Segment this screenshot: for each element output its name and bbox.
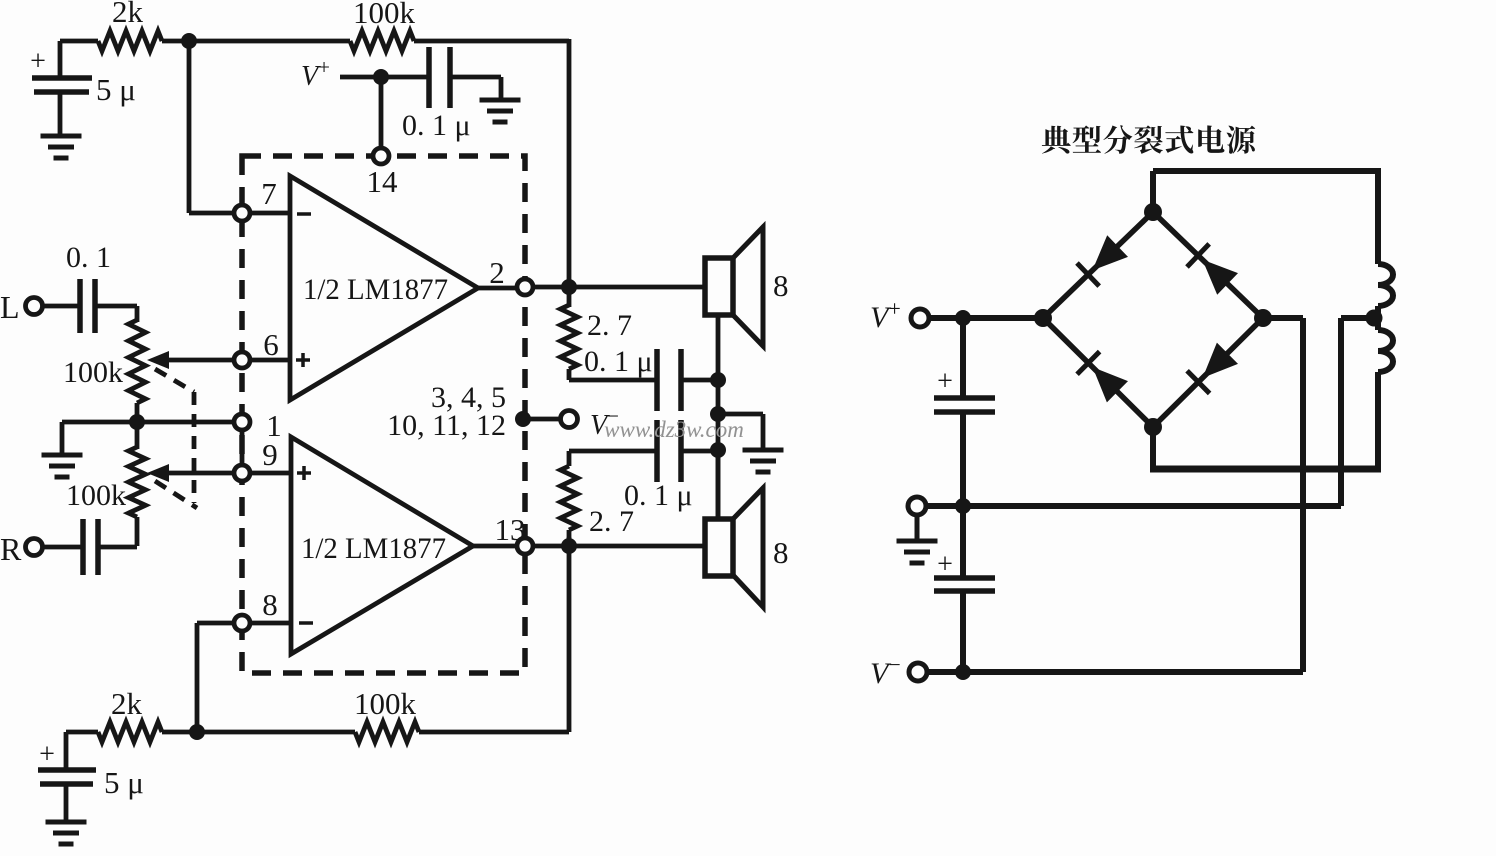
node V- cap xyxy=(955,664,971,680)
capacitor C5 (V- filter) xyxy=(960,506,966,576)
terminal 0V (supply) xyxy=(908,497,926,515)
svg-text:www.dz3w.com: www.dz3w.com xyxy=(604,417,744,442)
svg-text:+: + xyxy=(30,46,46,77)
wire to speaker ground xyxy=(718,412,763,417)
wire pin7 to U1 xyxy=(250,211,290,216)
node output U1 xyxy=(561,279,577,295)
op-amp U2 1/2 LM1877 xyxy=(291,437,473,654)
wire to V- terminal xyxy=(523,417,560,422)
gang dashed link (RP1-RP2) xyxy=(155,369,197,508)
wire pin2 to output node xyxy=(533,285,562,290)
svg-text:100k: 100k xyxy=(354,686,417,721)
terminal R xyxy=(26,539,43,556)
wire pin8 to bottom node xyxy=(197,621,234,626)
wire bridge top to transformer xyxy=(1150,171,1156,212)
wire pin9 to U2 xyxy=(250,471,291,476)
svg-text:1/2 LM1877: 1/2 LM1877 xyxy=(301,532,446,565)
svg-text:7: 7 xyxy=(261,176,277,211)
node zobel1/ground xyxy=(710,372,726,388)
RP2 wiper arrow xyxy=(160,471,234,476)
svg-text:0. 1: 0. 1 xyxy=(66,241,111,274)
pin 14 xyxy=(373,148,389,164)
wire V+ rail xyxy=(929,315,1043,321)
transformer secondary coil xyxy=(1378,264,1393,306)
wire V- rail xyxy=(927,669,1303,675)
resistor 2k (top) xyxy=(98,31,162,51)
wire node A to pin 7 xyxy=(187,41,192,213)
diode D3 (right to top) xyxy=(1202,260,1238,295)
node bridge right xyxy=(1254,309,1272,327)
wire U1 apex to pin2 xyxy=(478,286,517,291)
wire pot center to ground xyxy=(62,420,137,425)
svg-text:13: 13 xyxy=(495,512,526,547)
svg-text:+: + xyxy=(937,549,953,580)
resistor 2k (bottom) xyxy=(98,722,162,742)
wire pin13 to output node xyxy=(533,544,562,549)
wire SP2 return xyxy=(716,450,721,519)
wire pin1 to pin9 link xyxy=(240,430,245,465)
wire ground rail xyxy=(926,503,1341,509)
terminal V- (supply) xyxy=(909,663,927,681)
wire top feedback rail xyxy=(60,39,98,44)
svg-text:0. 1 μ: 0. 1 μ xyxy=(584,345,653,378)
capacitor C1 5u (top-left) xyxy=(58,41,63,76)
capacitor CR 0.1 (R input) xyxy=(43,545,81,550)
svg-text:2: 2 xyxy=(489,255,505,290)
svg-text:5 μ: 5 μ xyxy=(104,765,144,800)
wire pot center to pin 1 xyxy=(137,420,234,425)
title 典型分裂式电源 xyxy=(1042,126,1071,154)
wire bridge bottom to transformer xyxy=(1150,427,1156,469)
svg-text:8: 8 xyxy=(262,587,278,622)
wire SP1 return xyxy=(716,314,721,380)
node bridge top xyxy=(1144,203,1162,221)
ground (C1) xyxy=(41,134,82,139)
capacitor 0.1u (upper zobel) xyxy=(654,349,660,411)
pin 1 xyxy=(234,414,250,430)
node bridge left xyxy=(1034,309,1052,327)
diode D1 (top to left) xyxy=(1092,235,1128,270)
wire center tap to ground rail xyxy=(1341,315,1374,321)
ground (supply) xyxy=(915,515,920,540)
capacitor C4 (V+ filter) xyxy=(960,318,966,396)
junction V+ node xyxy=(373,69,389,85)
svg-text:6: 6 xyxy=(263,327,279,362)
svg-text:5 μ: 5 μ xyxy=(96,72,136,107)
U2 plus input mark xyxy=(297,471,311,475)
svg-text:+: + xyxy=(937,366,953,397)
op-amp U1 1/2 LM1877 xyxy=(290,176,478,400)
svg-text:0. 1 μ: 0. 1 μ xyxy=(624,479,693,512)
wire ground chain xyxy=(716,380,721,519)
ground (speakers) xyxy=(743,448,784,453)
svg-text:100k: 100k xyxy=(66,479,126,512)
RP1 wiper arrow xyxy=(160,358,234,363)
U1 minus input mark xyxy=(297,212,311,216)
svg-text:100k: 100k xyxy=(353,0,416,30)
IC boundary dashed box LM1877 xyxy=(242,156,525,673)
potentiometer RP2 100k (R volume) xyxy=(135,422,140,449)
wire output U1 to speaker xyxy=(569,285,706,290)
svg-text:14: 14 xyxy=(367,164,399,199)
node A junction (2k/100k) xyxy=(181,33,197,49)
svg-text:8: 8 xyxy=(773,535,789,570)
svg-text:9: 9 xyxy=(262,437,278,472)
node pins-345 on box xyxy=(515,411,531,427)
potentiometer RP1 100k (L volume) xyxy=(129,320,146,403)
pin 8 xyxy=(234,615,250,631)
wire bridge diamond xyxy=(1043,212,1263,427)
wire L cap to pot top xyxy=(135,306,140,322)
diode D4 (right to bottom) xyxy=(1203,343,1238,378)
terminal V+ (supply) xyxy=(911,309,929,327)
resistor 2.7 (lower zobel) xyxy=(567,537,572,546)
node center tap xyxy=(1366,310,1383,327)
ground (C2) xyxy=(480,98,521,103)
svg-text:100k: 100k xyxy=(63,356,123,389)
capacitor C3 5u (bottom-left) xyxy=(64,732,69,768)
wire bottom feedback rail xyxy=(66,730,98,735)
pin 9 xyxy=(234,465,250,481)
speaker SP2 8ohm xyxy=(733,488,763,607)
node bridge bottom xyxy=(1144,418,1162,436)
pin 13 output xyxy=(517,538,533,554)
wire V+ to cap xyxy=(340,75,427,80)
wire U2 apex to pin13 xyxy=(473,544,517,549)
node 0V cap xyxy=(955,498,971,514)
wire V+ to pin 14 xyxy=(379,77,384,147)
svg-text:2k: 2k xyxy=(112,0,144,29)
node zobel2 xyxy=(710,442,726,458)
svg-text:0. 1 μ: 0. 1 μ xyxy=(402,109,471,142)
svg-text:+: + xyxy=(39,739,55,770)
resistor 2.7 (upper zobel) xyxy=(567,287,572,307)
svg-text:1/2 LM1877: 1/2 LM1877 xyxy=(303,273,448,306)
resistor 100k (top) xyxy=(350,31,414,51)
svg-text:2. 7: 2. 7 xyxy=(587,309,632,342)
capacitor CL 0.1 (L input) xyxy=(43,304,78,309)
terminal V- xyxy=(561,411,578,428)
capacitor 0.1u (lower zobel) xyxy=(654,420,660,482)
wire pin8 to U2 xyxy=(250,621,291,626)
capacitor C2 0.1u (V+ bypass) xyxy=(426,47,432,108)
U1 plus input mark xyxy=(296,358,310,362)
node V+ cap xyxy=(955,310,971,326)
wire bridge minus to V- rail xyxy=(1263,315,1303,321)
svg-text:2k: 2k xyxy=(111,686,143,721)
node output U2 xyxy=(561,538,577,554)
svg-text:R: R xyxy=(0,531,22,567)
diode D2 (bottom to left) xyxy=(1093,367,1128,402)
svg-text:10, 11, 12: 10, 11, 12 xyxy=(387,409,506,442)
resistor 100k (bottom) xyxy=(355,722,419,742)
wire pin6 to U1 xyxy=(250,358,290,363)
node B junction (2k/100k) xyxy=(189,724,205,740)
svg-text:L: L xyxy=(0,289,20,325)
pin 2 output xyxy=(517,279,533,295)
U2 minus input mark xyxy=(299,621,313,625)
pin 7 xyxy=(234,205,250,221)
wire output U2 to speaker xyxy=(569,544,706,549)
ground (C3) xyxy=(46,820,87,825)
ground (pot center) xyxy=(42,453,83,458)
speaker SP1 8ohm xyxy=(733,227,763,346)
node pot center xyxy=(129,414,145,430)
pin 6 xyxy=(234,352,250,368)
terminal L xyxy=(26,298,43,315)
node ground tap xyxy=(710,406,726,422)
svg-text:8: 8 xyxy=(773,268,789,303)
